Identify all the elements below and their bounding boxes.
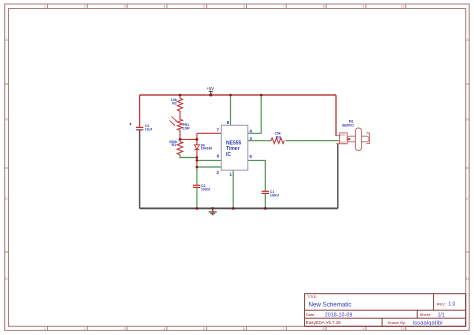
svg-text:7: 7 — [283, 327, 285, 331]
wire servo VCC drop (red) — [335, 95, 337, 136]
wire LDR bottom to node (red) — [179, 130, 181, 139]
photoresistor PR1 — [169, 116, 190, 130]
wire pin7 horizontal (red) — [197, 132, 221, 134]
title block — [305, 294, 466, 327]
node dot diode top junction — [196, 138, 199, 141]
diode D0 — [194, 143, 212, 150]
svg-text:3: 3 — [249, 136, 252, 141]
node dot pin2 junction — [196, 166, 199, 169]
svg-text:3: 3 — [124, 327, 126, 331]
frame column ticks bottom — [48, 326, 406, 330]
wire diode bottom down (red) — [196, 150, 198, 158]
wire pin5 to C1 (green) — [248, 160, 265, 191]
svg-text:2: 2 — [84, 327, 86, 331]
node dot C1 on ground rail — [264, 207, 267, 210]
wire diode column up (red) — [196, 133, 198, 139]
frame column numbers top — [44, 5, 404, 9]
svg-text:2: 2 — [84, 5, 86, 9]
op-amp U1 NE555 timer IC body — [221, 125, 248, 170]
svg-text:Sheet:: Sheet: — [420, 312, 432, 317]
svg-text:10uf: 10uf — [145, 127, 153, 131]
power flag +5V — [207, 86, 215, 95]
svg-text:R2: R2 — [172, 102, 177, 106]
svg-text:100nf: 100nf — [270, 194, 280, 198]
frame row ticks left — [5, 84, 9, 252]
svg-text:Drawn By:: Drawn By: — [388, 320, 406, 325]
wire R2 top stub (red) — [179, 95, 181, 98]
wire R2-LDR link (red) — [179, 111, 181, 119]
node dot pin6 junction — [196, 159, 199, 162]
svg-text:8: 8 — [323, 327, 325, 331]
svg-text:10: 10 — [401, 327, 405, 331]
wire pin3 to R3 (green) — [248, 140, 271, 142]
svg-text:1: 1 — [44, 5, 46, 9]
svg-text:SERVO: SERVO — [342, 123, 354, 127]
svg-text:8: 8 — [323, 5, 325, 9]
svg-text:1: 1 — [229, 172, 232, 177]
svg-text:+5V: +5V — [207, 86, 215, 91]
node dot pin4 on rail — [260, 94, 263, 97]
node dot +5V on rail — [209, 94, 212, 97]
svg-text:7: 7 — [283, 5, 285, 9]
wire servo GND drop (black) — [337, 144, 339, 209]
svg-text:6: 6 — [243, 327, 245, 331]
servo M1 — [336, 120, 369, 151]
svg-text:5: 5 — [203, 5, 205, 9]
svg-text:4: 4 — [164, 5, 166, 9]
svg-text:TITLE:: TITLE: — [308, 295, 318, 299]
svg-text:2: 2 — [216, 170, 219, 175]
svg-text:VCC: VCC — [340, 133, 346, 137]
svg-text:Date:: Date: — [306, 312, 316, 317]
wire R1 bottom jog (green) — [180, 155, 197, 158]
svg-text:5: 5 — [249, 154, 252, 159]
node dot pin8 on rail — [229, 94, 232, 97]
svg-text:5: 5 — [203, 327, 205, 331]
wire C3 top column (green) — [196, 167, 198, 185]
frame column numbers bottom — [44, 327, 404, 331]
node dot R1-bottom junction — [196, 156, 199, 159]
frame column ticks top — [48, 4, 406, 9]
wire node to diode top (red) — [196, 139, 198, 144]
svg-text:1/1: 1/1 — [438, 312, 445, 318]
svg-text:10: 10 — [401, 5, 405, 9]
wire C2 bottom drop (black) — [139, 130, 141, 209]
resistor R3 — [271, 132, 284, 144]
svg-text:100nf: 100nf — [201, 187, 211, 191]
svg-text:4: 4 — [249, 128, 252, 133]
capacitor C1 — [262, 190, 280, 198]
wire C1 bottom (green) — [264, 194, 266, 209]
svg-text:R1: R1 — [172, 143, 177, 147]
wire C2 top drop (red) — [139, 95, 141, 127]
svg-text:R3: R3 — [276, 135, 281, 139]
wire pin8 vertical (green) — [230, 95, 232, 125]
frame row letters left — [5, 38, 8, 281]
wire pin6 horizontal (green) — [197, 159, 221, 161]
wire ground rail bottom (black) — [140, 207, 338, 209]
wire R3 to servo signal (green) — [286, 140, 340, 142]
wire pin2 horizontal (green) — [197, 166, 221, 168]
wire +5V rail top (red) — [140, 94, 336, 96]
svg-text:LDR: LDR — [183, 126, 191, 130]
wire node row to diode column (red) — [180, 138, 197, 140]
svg-text:REV:: REV: — [437, 301, 446, 306]
node dot LDR-R1 junction — [179, 138, 182, 141]
node dot C3 on ground rail — [196, 207, 199, 210]
svg-text:8: 8 — [227, 120, 230, 125]
frame row letters right — [466, 38, 469, 281]
svg-text:3: 3 — [124, 5, 126, 9]
svg-text:1N4148: 1N4148 — [201, 147, 212, 151]
svg-text:7: 7 — [217, 128, 220, 133]
wire diode column mid (red) — [196, 158, 198, 168]
title block texts — [306, 295, 456, 327]
wire C3 bottom column (green) — [196, 188, 198, 209]
svg-text:GND: GND — [340, 141, 346, 145]
svg-text:6: 6 — [243, 5, 245, 9]
svg-text:EasyEDA V5.7.26: EasyEDA V5.7.26 — [306, 320, 341, 325]
resistor R1 — [169, 140, 183, 155]
svg-text:1: 1 — [44, 327, 46, 331]
svg-text:New Schematic: New Schematic — [309, 302, 352, 309]
svg-text:9: 9 — [363, 327, 365, 331]
svg-text:9: 9 — [363, 5, 365, 9]
svg-text:6: 6 — [217, 153, 220, 158]
svg-text:1.0: 1.0 — [448, 302, 455, 308]
node dot pin1 on ground rail — [232, 207, 235, 210]
wire pin1 vertical (green) — [232, 170, 234, 208]
wire pin4 (green) — [248, 95, 261, 133]
node dot R2 top on rail — [179, 94, 182, 97]
ground symbol — [209, 208, 217, 214]
svg-text:2018-10-09: 2018-10-09 — [325, 312, 353, 318]
capacitor C2 — [129, 123, 153, 132]
svg-text:issaalqatibi: issaalqatibi — [413, 320, 443, 326]
svg-text:4: 4 — [164, 327, 166, 331]
frame row ticks right — [466, 84, 470, 252]
resistor R2 — [171, 98, 183, 111]
svg-text:IC: IC — [226, 152, 231, 158]
capacitor C3 — [193, 184, 211, 191]
